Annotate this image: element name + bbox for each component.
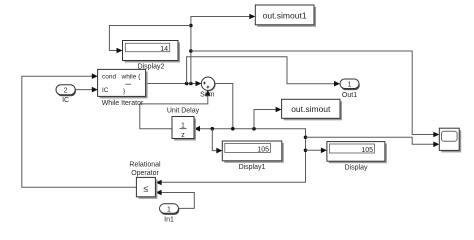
svg-text:Relational: Relational (129, 161, 161, 168)
label Display2 (138, 63, 165, 70)
arrowhead into Display1 (216, 148, 222, 154)
arrowhead into Scope bottom (433, 142, 439, 148)
svg-text:14: 14 (160, 46, 168, 53)
svg-text:while {: while { (121, 74, 142, 81)
arrowhead into While Iterator IC (92, 87, 98, 93)
arrowhead into out.simout1 (249, 14, 255, 20)
wire branch up to out.simout1 (191, 17, 252, 84)
svg-text:Display: Display (345, 164, 368, 171)
svg-text:105: 105 (257, 146, 269, 153)
wire bus y=128.7 to Unit Delay input (160, 129, 306, 183)
arrowhead into Relational Operator top input (156, 180, 162, 186)
label Out1 (342, 92, 357, 99)
wire branch to Display (306, 149, 324, 151)
label Display (345, 164, 368, 171)
svg-text:Unit Delay: Unit Delay (167, 107, 200, 114)
wire In1 to Relational Operator bottom input (160, 193, 194, 209)
label IC (62, 97, 69, 104)
svg-text:out.simout: out.simout (291, 104, 331, 114)
node junction at 232.8,128.7 (231, 127, 235, 131)
block Display (327, 142, 387, 164)
arrowhead into Relational Operator bottom input (156, 190, 162, 196)
block Display1 (222, 141, 283, 163)
svg-text:Operator: Operator (131, 170, 159, 177)
arrowhead into Unit Delay right input (194, 126, 200, 132)
wire branch to Scope bottom input (306, 137, 436, 144)
arrowhead into While Iterator cond (92, 73, 98, 79)
port Out1 oval (340, 79, 360, 90)
svg-text:Display1: Display1 (239, 164, 266, 171)
port In1 oval (160, 204, 180, 215)
block Scope (439, 128, 461, 152)
label Sum (200, 92, 215, 99)
wire IC to While Iterator IC input (75, 89, 93, 91)
wire branch up to out.simout (254, 110, 278, 129)
svg-text:IC: IC (62, 97, 69, 104)
svg-text:2: 2 (64, 88, 68, 95)
wire branch to Out1 (up, right, down, right) (187, 57, 336, 84)
svg-text:IC: IC (102, 87, 109, 94)
node junction at 254,128.7 (252, 127, 256, 131)
svg-text:105: 105 (361, 147, 373, 154)
svg-text:1: 1 (167, 206, 171, 213)
node junction at 190.9,25.5 (189, 24, 193, 28)
wire Relational Operator output to While Iterator cond input (22, 76, 137, 187)
port IC input oval (56, 85, 76, 97)
arrowhead into Sum bottom (205, 90, 211, 96)
label Display1 (239, 164, 266, 171)
svg-text:Out1: Out1 (342, 92, 357, 99)
wire While Iterator output to Sum left input (146, 83, 197, 85)
label Relational Operator (129, 161, 161, 177)
block Sum (circle adder) (201, 77, 215, 91)
label While Iterator (102, 100, 144, 107)
svg-text:≤: ≤ (144, 183, 149, 193)
node junction at 186.6,83.5 (185, 82, 189, 86)
block While Iterator U1 (98, 69, 148, 98)
block Unit Delay (flipped) (172, 117, 196, 141)
arrowhead into Display (321, 148, 327, 154)
svg-text:z: z (181, 132, 185, 139)
wire Sum output down to bus (215, 84, 233, 129)
arrowhead into Sum left (196, 81, 202, 87)
svg-text:In1: In1 (164, 217, 174, 224)
node junction at 305.5,137.3 (304, 136, 308, 140)
node junction at 190.9,51 (189, 49, 193, 53)
wire branch down to Display1 (212, 129, 218, 151)
arrowhead into Out1 (334, 81, 340, 87)
svg-text:While Iterator: While Iterator (102, 100, 144, 107)
svg-text:cond: cond (102, 74, 116, 81)
arrowhead into out.simout (276, 107, 282, 113)
block Relational Operator (flipped) (136, 177, 157, 198)
svg-text:1: 1 (181, 122, 185, 129)
svg-text:Sum: Sum (200, 92, 215, 99)
node junction at 190.9,83.5 (189, 82, 193, 86)
block out.simout1 (To Workspace) (255, 5, 316, 27)
svg-text:1: 1 (348, 82, 352, 89)
label Unit Delay (167, 107, 200, 114)
block out.simout (To Workspace) (282, 99, 342, 120)
label In1 (164, 217, 174, 224)
svg-text:out.simout1: out.simout1 (263, 10, 307, 20)
arrowhead into Scope top (433, 132, 439, 138)
block Display2 (123, 41, 181, 63)
wire branch to Scope top input (191, 51, 436, 135)
node junction at 212.3,128.7 (211, 127, 215, 131)
wire Unit Delay output to Sum bottom input (140, 94, 208, 129)
wire branch to Display2 (109, 26, 190, 51)
node junction at 305.5,150.3 (304, 149, 308, 153)
arrowhead into Display2 (117, 48, 123, 54)
